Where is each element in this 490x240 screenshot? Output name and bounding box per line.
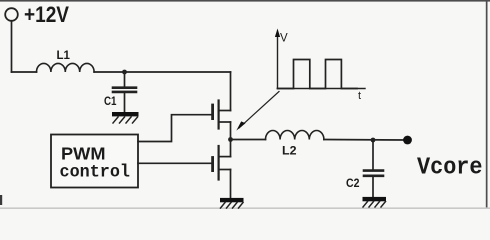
- svg-text:control: control: [60, 163, 131, 183]
- waveform square-wave trace: [278, 60, 358, 89]
- terminal +12V input: [5, 8, 18, 21]
- wire Q2 source down: [230, 170, 232, 199]
- wire C1 lead upper: [124, 72, 126, 86]
- wire L2 to output: [324, 139, 407, 142]
- svg-text:L1: L1: [57, 50, 71, 62]
- wire Q2 drain vertical: [230, 140, 232, 157]
- wire Q1 drain vertical: [230, 72, 232, 111]
- svg-text:t: t: [358, 90, 361, 102]
- svg-text:C2: C2: [346, 178, 360, 190]
- terminal Vcore output: [403, 136, 412, 145]
- wire node to L2: [231, 139, 266, 141]
- svg-text:L2: L2: [282, 146, 297, 158]
- svg-text:C1: C1: [104, 96, 117, 108]
- wire L1 to Q1 drain: [94, 71, 230, 73]
- waveform inset V axis: [275, 29, 280, 89]
- transistor Q2 low-side MOSFET: [213, 146, 231, 180]
- ground below Q2: [220, 198, 244, 208]
- wire C2 lead upper: [372, 140, 374, 169]
- capacitor C1: [113, 88, 136, 92]
- annotation arrow inset to phase node: [236, 92, 279, 131]
- wire +12V rail to L1: [12, 71, 37, 73]
- wire C1 lead lower: [124, 93, 126, 112]
- inductor L1: [37, 63, 95, 72]
- wire C2 lead lower: [372, 177, 374, 197]
- svg-text:Vcore: Vcore: [417, 155, 483, 182]
- wire U1 to Q1 gate: [138, 115, 211, 142]
- wire U1 to Q2 gate: [138, 162, 211, 164]
- ground below C2: [363, 197, 387, 207]
- svg-text:+12V: +12V: [24, 2, 69, 27]
- transistor Q1 high-side MOSFET: [213, 101, 231, 129]
- waveform inset t axis: [278, 88, 366, 90]
- ground below C1: [112, 112, 139, 123]
- wire +12V terminal down: [11, 21, 13, 72]
- node C2 tap junction: [371, 138, 376, 143]
- node phase junction: [228, 137, 233, 142]
- inductor L2: [266, 131, 324, 140]
- svg-text:PWM: PWM: [61, 144, 106, 164]
- node C1 tap junction: [122, 70, 127, 75]
- capacitor C2: [364, 171, 383, 176]
- wire Q1 source to node: [230, 122, 232, 140]
- svg-text:V: V: [280, 33, 288, 45]
- PWM controller box U1: [51, 135, 138, 188]
